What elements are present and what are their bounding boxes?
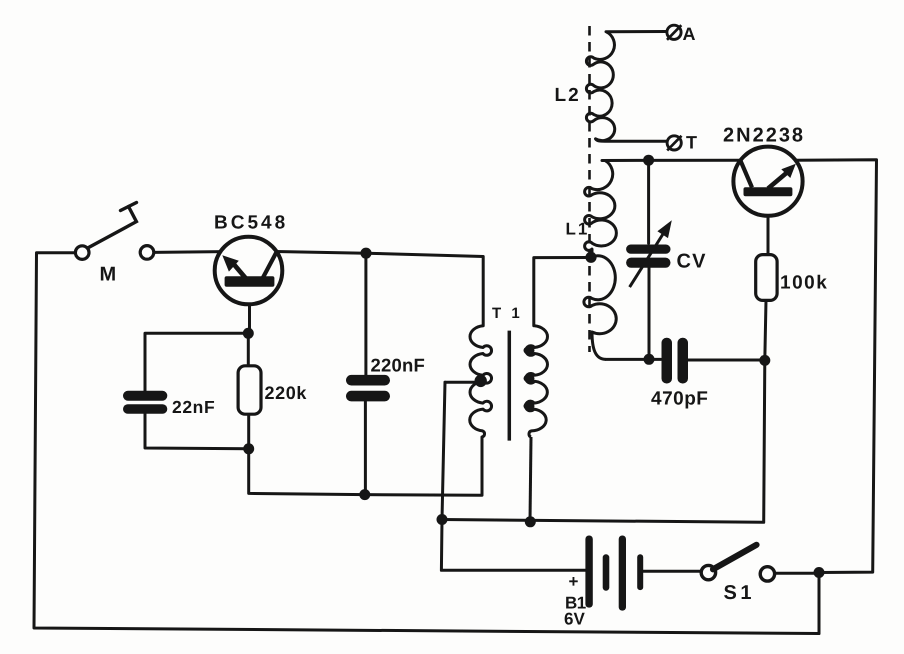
svg-text:100k: 100k [780, 273, 828, 294]
svg-text:CV: CV [677, 251, 707, 273]
svg-text:T: T [686, 133, 697, 153]
svg-text:+: + [569, 572, 579, 591]
svg-text:S1: S1 [724, 582, 755, 604]
svg-text:22nF: 22nF [172, 397, 215, 417]
svg-text:L1: L1 [566, 220, 590, 239]
svg-text:BC548: BC548 [214, 213, 288, 234]
svg-text:220nF: 220nF [371, 355, 425, 376]
svg-text:L2: L2 [555, 85, 581, 106]
svg-text:2N2238: 2N2238 [723, 125, 805, 147]
svg-text:M: M [100, 264, 117, 286]
svg-text:A: A [683, 24, 696, 44]
svg-text:470pF: 470pF [651, 389, 708, 410]
svg-text:220k: 220k [265, 383, 308, 403]
svg-text:6V: 6V [564, 610, 585, 629]
svg-text:T 1: T 1 [492, 305, 523, 322]
